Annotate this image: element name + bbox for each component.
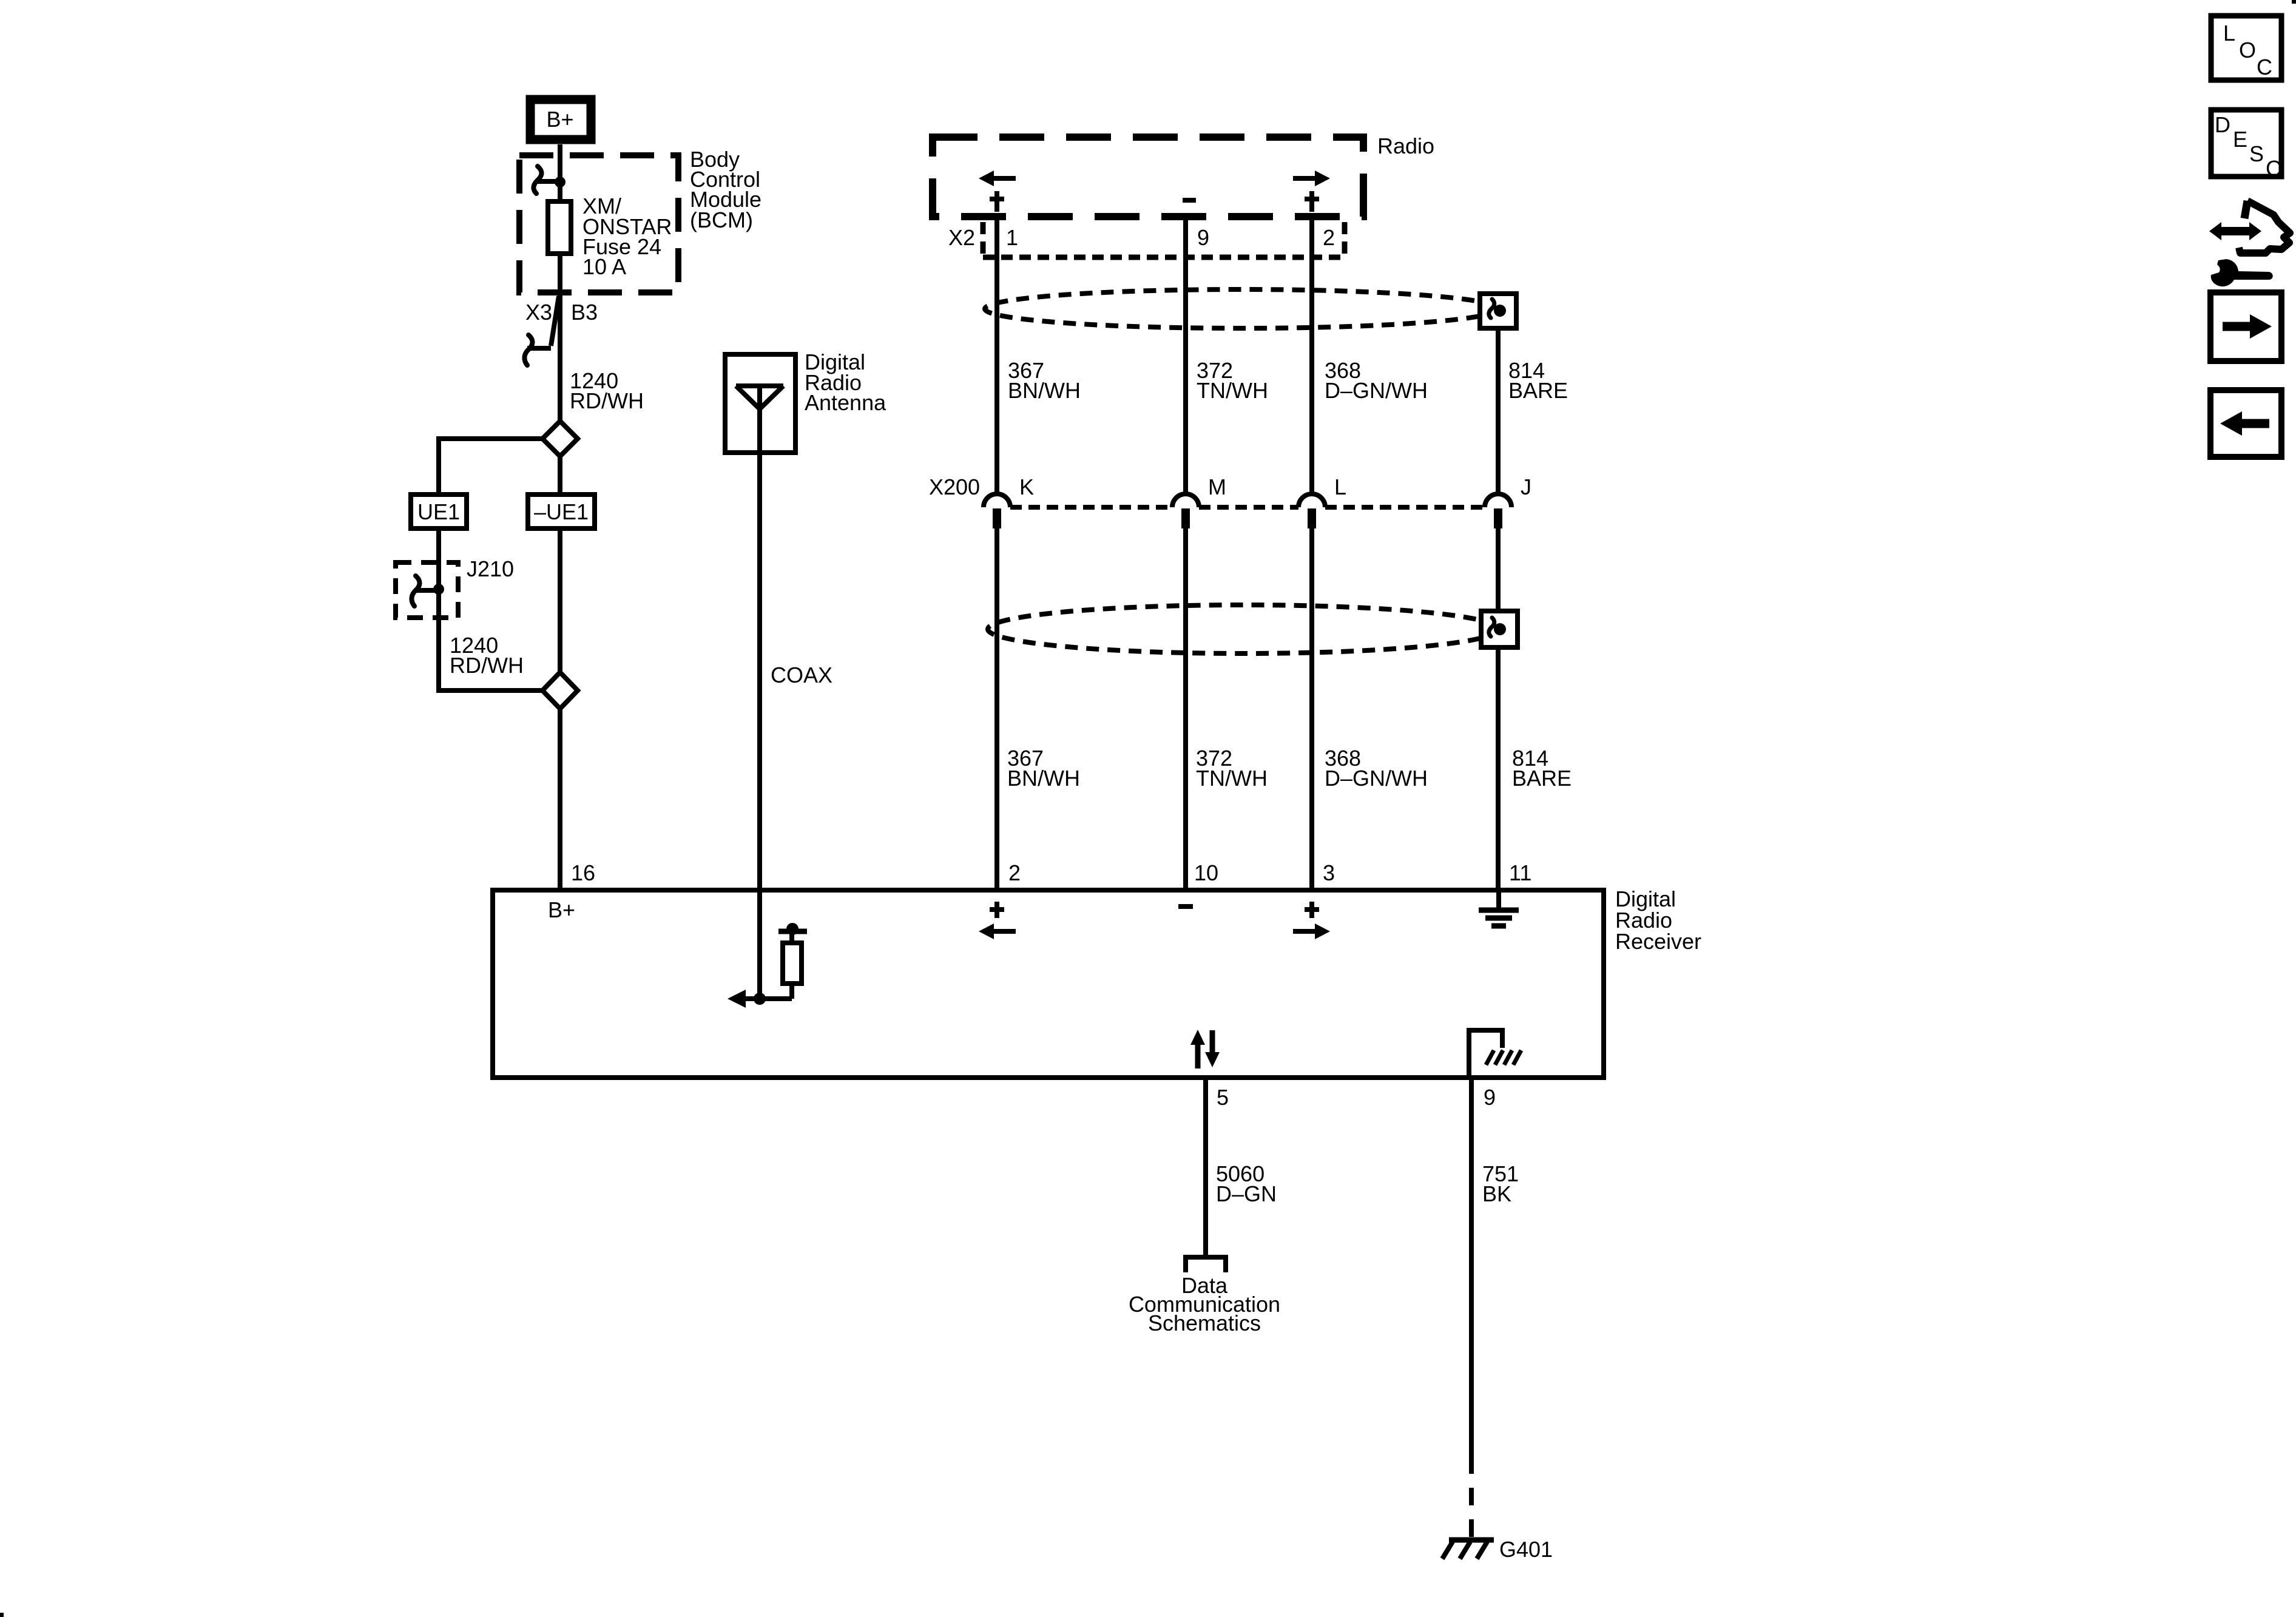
svg-text:D: D <box>2215 112 2230 137</box>
connector X200 row <box>929 474 1485 507</box>
wire fuse to diamond <box>558 254 562 424</box>
svg-text:Antenna: Antenna <box>805 390 886 415</box>
svg-text:BN/WH: BN/WH <box>1008 378 1081 403</box>
svg-text:Receiver: Receiver <box>1615 929 1701 954</box>
svg-text:B3: B3 <box>571 300 598 325</box>
Digital Radio Antenna <box>725 354 795 453</box>
svg-text:C: C <box>2266 156 2281 181</box>
connector X2 band <box>948 222 1345 257</box>
X200 pin K <box>984 474 1034 528</box>
svg-text:E: E <box>2233 127 2247 152</box>
wire label 367 BN/WH upper <box>1008 358 1081 403</box>
svg-text:B+: B+ <box>546 107 573 132</box>
svg-text:16: 16 <box>571 860 595 885</box>
svg-text:9: 9 <box>1484 1085 1496 1110</box>
shield terminal upper <box>1480 294 1516 328</box>
J210 splice pack <box>396 556 514 618</box>
svg-text:D–GN: D–GN <box>1216 1181 1277 1206</box>
svg-text:X2: X2 <box>948 225 975 250</box>
svg-text:C: C <box>2257 55 2272 79</box>
svg-text:10 A: 10 A <box>582 254 626 279</box>
receiver signal ground pin11 <box>1479 890 1519 926</box>
svg-text:X200: X200 <box>929 474 980 499</box>
wire label 751 BK <box>1482 1161 1519 1206</box>
off-page connector to data schematics <box>1186 1257 1226 1272</box>
wire loop top <box>439 439 542 495</box>
svg-text:2: 2 <box>1008 860 1021 885</box>
receiver plus pin3 <box>1305 902 1319 918</box>
radio left out-arrow <box>979 170 1016 186</box>
antenna label <box>805 349 886 415</box>
coax termination inside receiver <box>728 923 807 1008</box>
svg-text:D–GN/WH: D–GN/WH <box>1325 766 1428 791</box>
wire 368 lower <box>1309 528 1314 890</box>
svg-text:1: 1 <box>1006 225 1018 250</box>
svg-text:RD/WH: RD/WH <box>450 653 524 678</box>
receiver chassis ground pin9 <box>1469 1030 1521 1078</box>
radio minus pin9 <box>1183 198 1196 203</box>
wire label 814 BARE upper <box>1508 358 1568 403</box>
BCM dashed box <box>519 155 678 292</box>
svg-text:Schematics: Schematics <box>1148 1311 1261 1335</box>
wire 367 lower <box>994 528 999 890</box>
wire 368 upper <box>1309 217 1314 494</box>
svg-text:O: O <box>2239 38 2256 62</box>
corner mark bottom left <box>0 1613 4 1617</box>
B+ power feed box <box>530 100 591 140</box>
wire B+ to fuse <box>558 144 562 201</box>
svg-text:2: 2 <box>1323 225 1335 250</box>
twisted pair ellipse upper <box>985 289 1498 328</box>
svg-text:COAX: COAX <box>771 663 832 687</box>
svg-text:(BCM): (BCM) <box>690 208 753 232</box>
wire 372 upper <box>1183 217 1188 494</box>
wire to receiver pin 16 <box>558 709 562 890</box>
X200 pin J <box>1485 474 1531 528</box>
radio right out-arrow <box>1293 170 1330 186</box>
splice diamond lower <box>542 672 578 709</box>
svg-text:10: 10 <box>1194 860 1218 885</box>
svg-text:B+: B+ <box>548 897 575 922</box>
svg-text:BN/WH: BN/WH <box>1007 766 1080 791</box>
svg-text:BARE: BARE <box>1512 766 1572 791</box>
svg-text:UE1: UE1 <box>417 499 460 524</box>
svg-text:X3: X3 <box>525 300 552 325</box>
receiver right in-arrow <box>1293 923 1330 939</box>
svg-text:TN/WH: TN/WH <box>1197 378 1268 403</box>
corner mark top right <box>2292 0 2296 4</box>
wire 814 upper <box>1496 328 1501 494</box>
Radio dashed box <box>933 137 1363 217</box>
svg-text:3: 3 <box>1323 860 1335 885</box>
svg-text:–UE1: –UE1 <box>534 499 589 524</box>
wire label 1240 RD/WH <box>570 368 644 413</box>
wire label 367 BN/WH lower <box>1007 746 1080 791</box>
wire 367 upper <box>994 217 999 494</box>
coax wire <box>757 453 762 999</box>
wire label 814 BARE lower <box>1512 746 1572 791</box>
UE1 box <box>411 495 467 528</box>
svg-text:M: M <box>1208 474 1226 499</box>
wire label 1240 RD/WH lower <box>450 633 524 678</box>
svg-text:L: L <box>1334 474 1346 499</box>
fuse label <box>582 194 672 279</box>
DESC nav box <box>2211 110 2281 181</box>
receiver minus pin10 <box>1178 904 1193 909</box>
svg-text:9: 9 <box>1197 225 1209 250</box>
Digital Radio Receiver box <box>493 890 1604 1078</box>
svg-text:K: K <box>1019 474 1034 499</box>
connector X3/B3 <box>524 296 598 365</box>
X200 pin M <box>1172 474 1226 528</box>
wire UE1 down loop <box>439 528 542 690</box>
data schematics label <box>1129 1273 1280 1335</box>
radio plus pin1 <box>990 191 1004 212</box>
receiver data arrows pin5 <box>1190 1030 1220 1068</box>
fuse XM/ONSTAR Fuse 24 10A <box>548 201 571 254</box>
receiver left in-arrow <box>979 923 1016 939</box>
wire label 372 TN/WH lower <box>1196 746 1268 791</box>
svg-text:S: S <box>2249 141 2264 166</box>
wire 751 BK <box>1469 1078 1474 1456</box>
svg-text:Radio: Radio <box>1377 133 1434 158</box>
svg-text:G401: G401 <box>1499 1537 1553 1562</box>
-UE1 box <box>528 495 595 528</box>
diagnostic hand/wrench icon <box>2209 201 2290 286</box>
shield terminal lower <box>1481 611 1518 647</box>
svg-text:L: L <box>2223 21 2235 46</box>
wire 5060 D-GN <box>1203 1078 1208 1257</box>
svg-text:J210: J210 <box>467 556 514 581</box>
wire label 372 TN/WH upper <box>1197 358 1268 403</box>
svg-text:11: 11 <box>1509 860 1531 885</box>
wire -UE1 segments <box>558 456 562 495</box>
receiver label <box>1615 886 1701 954</box>
svg-text:D–GN/WH: D–GN/WH <box>1325 378 1428 403</box>
ground G401 <box>1442 1537 1553 1562</box>
svg-text:BK: BK <box>1482 1181 1511 1206</box>
svg-text:5: 5 <box>1217 1085 1229 1110</box>
X200 pin L <box>1298 474 1346 528</box>
svg-text:BARE: BARE <box>1508 378 1568 403</box>
wire label 368 D-GN/WH lower <box>1325 746 1428 791</box>
wire 814 lower <box>1496 528 1501 611</box>
forward nav box <box>2210 292 2281 361</box>
wire label 368 D-GN/WH upper <box>1325 358 1428 403</box>
wire 372 lower <box>1183 528 1188 890</box>
radio plus pin2 <box>1305 191 1319 212</box>
receiver plus pin2 <box>990 902 1004 918</box>
BCM label <box>690 147 761 232</box>
svg-text:J: J <box>1521 474 1531 499</box>
wire label 5060 D-GN <box>1216 1161 1277 1206</box>
back nav box <box>2210 390 2281 457</box>
svg-text:RD/WH: RD/WH <box>570 388 644 413</box>
BCM internal connection hook <box>533 166 566 194</box>
svg-text:TN/WH: TN/WH <box>1196 766 1268 791</box>
splice diamond upper <box>542 421 578 456</box>
LOC nav box <box>2211 16 2281 80</box>
twisted pair ellipse lower <box>988 605 1499 653</box>
